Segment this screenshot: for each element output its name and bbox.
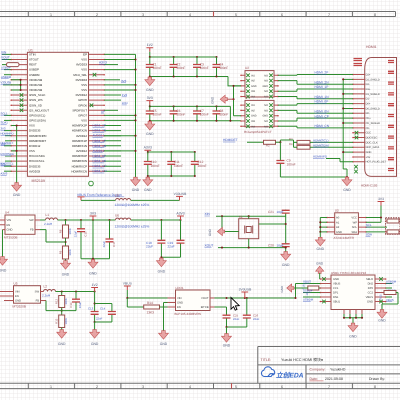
- wire VBUS right stub: [386, 297, 394, 302]
- net label HDMI_0P: [315, 100, 329, 104]
- sheet border bottom: [0, 383, 400, 388]
- svg-text:GND: GND: [282, 263, 290, 267]
- svg-text:GND: GND: [349, 334, 357, 338]
- svg-text:GND: GND: [146, 132, 154, 136]
- ground U4 caps: [88, 260, 98, 276]
- svg-text:2: 2: [96, 385, 98, 389]
- net label HDMI_0P u1row: [93, 154, 122, 158]
- no-connect X SBU1: [322, 277, 326, 303]
- svg-text:100K: 100K: [64, 318, 68, 325]
- logo LCEDA: [261, 367, 303, 380]
- capacitor C10 100nF: [144, 152, 160, 176]
- svg-text:HDMI(SDA): HDMI(SDA): [313, 143, 329, 147]
- ground row1: [145, 77, 155, 92]
- net label HDMI_1N: [315, 95, 330, 99]
- svg-text:HDMIRXHPD: HDMIRXHPD: [29, 134, 47, 138]
- svg-text:1V2: 1V2: [92, 283, 98, 287]
- wire V33USB rail: [81, 199, 180, 201]
- svg-text:LED: LED: [122, 101, 129, 105]
- wire U5 FB: [46, 301, 62, 311]
- net label HDMI_2P u1row: [93, 124, 122, 128]
- svg-text:7: 7: [328, 13, 330, 17]
- svg-text:1V2: 1V2: [122, 93, 128, 97]
- svg-text:DVDD33: DVDD33: [76, 78, 88, 82]
- svg-text:1200Ω@100MHz ±25%: 1200Ω@100MHz ±25%: [115, 225, 150, 229]
- svg-text:D2-: D2-: [366, 83, 370, 86]
- svg-text:AVDD33: AVDD33: [76, 63, 87, 67]
- HDMI1 inner pad marks: [388, 61, 394, 171]
- svg-text:C17: C17: [112, 241, 116, 247]
- svg-text:GND: GND: [62, 273, 70, 277]
- svg-text:D2_SHIELD: D2_SHIELD: [366, 78, 380, 81]
- svg-text:D0-: D0-: [366, 112, 370, 115]
- svg-text:Company:: Company:: [310, 368, 326, 372]
- resistor R8 100K: [58, 220, 72, 238]
- ground flag left ESD: [211, 95, 234, 104]
- svg-text:100nF: 100nF: [219, 113, 228, 117]
- capacitor C21 10pF: [268, 210, 290, 225]
- resistor R2: [264, 140, 276, 147]
- net label 1V2 right: [104, 93, 127, 97]
- svg-text:GND: GND: [378, 319, 386, 323]
- svg-text:HDMI_CP: HDMI_CP: [93, 164, 107, 168]
- wire row3 ground rail: [147, 175, 196, 177]
- svg-text:VD33USB: VD33USB: [29, 83, 42, 87]
- svg-text:USBDP: USBDP: [1, 66, 11, 70]
- svg-text:NO: NO: [264, 74, 268, 77]
- svg-text:USBDM: USBDM: [29, 73, 40, 77]
- svg-text:DDC_DATA: DDC_DATA: [366, 146, 380, 149]
- svg-text:V33USB: V33USB: [1, 81, 12, 85]
- svg-text:HDMI(SCL): HDMI(SCL): [313, 139, 329, 143]
- capacitor C25 22uF: [223, 313, 240, 327]
- net label 3V3 left: [1, 127, 12, 131]
- ground flag USB GND pin: [316, 262, 324, 279]
- power flag 3V0USB: [239, 287, 252, 298]
- svg-text:VSS: VSS: [81, 83, 87, 87]
- svg-text:3V3: 3V3: [121, 79, 127, 83]
- svg-text:CK-: CK-: [366, 127, 371, 130]
- svg-text:AVDD12: AVDD12: [76, 134, 87, 138]
- svg-text:HDMIRX2P: HDMIRX2P: [72, 124, 87, 128]
- svg-text:A0: A0: [336, 217, 340, 220]
- svg-text:HDMI_2P: HDMI_2P: [315, 71, 329, 75]
- svg-text:U7: U7: [245, 96, 249, 100]
- svg-text:HDMI_0N: HDMI_0N: [315, 109, 330, 113]
- net label HDMIDET left: [1, 141, 14, 145]
- net label HDMIHPD left: [1, 132, 14, 136]
- inductor L1 2.2uH: [44, 213, 58, 226]
- capacitor C18 22uF: [146, 220, 165, 257]
- svg-text:IN1: IN1: [251, 104, 256, 107]
- svg-text:GND: GND: [262, 85, 268, 88]
- svg-text:I2SIN_WS: I2SIN_WS: [29, 98, 43, 102]
- svg-text:100nF: 100nF: [219, 66, 228, 70]
- svg-text:XOUT: XOUT: [1, 56, 10, 60]
- wire crystal right pin: [259, 223, 286, 225]
- svg-text:GND: GND: [15, 300, 21, 303]
- wire U3 address pins to ground: [319, 218, 327, 238]
- svg-text:D0_SHIELD: D0_SHIELD: [366, 107, 380, 110]
- power flag VBUS stub: [78, 197, 85, 201]
- svg-text:SBU2: SBU2: [366, 278, 374, 281]
- svg-text:D1_SHIELD: D1_SHIELD: [366, 93, 380, 96]
- power flag 3V3 U3: [378, 197, 385, 222]
- svg-text:USB1 TYPEC-304-BCP16: USB1 TYPEC-304-BCP16: [331, 271, 366, 275]
- svg-text:HDMI_2N: HDMI_2N: [315, 80, 330, 84]
- svg-text:22uF: 22uF: [233, 317, 240, 321]
- capacitor C3 100nF: [193, 57, 209, 77]
- resistor R3: [289, 138, 310, 144]
- net label HDMI_0N u1row: [93, 159, 122, 163]
- ground LDO caps: [222, 326, 232, 348]
- svg-text:1: 1: [50, 13, 52, 17]
- net label XOUT: [1, 56, 11, 60]
- svg-text:7: 7: [328, 385, 330, 389]
- ruler cursor ticks red: [213, 12, 215, 17]
- svg-text:GND: GND: [58, 342, 66, 346]
- svg-text:RXC0SDA: RXC0SDA: [1, 152, 14, 156]
- svg-text:CK_SHIELD: CK_SHIELD: [366, 122, 381, 125]
- svg-text:R15: R15: [380, 294, 383, 299]
- svg-text:100nF: 100nF: [174, 164, 183, 168]
- svg-text:DDC_CLK: DDC_CLK: [366, 141, 378, 144]
- svg-text:3V0USB: 3V0USB: [239, 287, 252, 291]
- svg-text:HDMIRXDET: HDMIRXDET: [29, 139, 46, 143]
- svg-text:100K: 100K: [64, 298, 68, 305]
- svg-text:USBDP: USBDP: [29, 68, 39, 72]
- svg-text:A3V3: A3V3: [99, 61, 107, 65]
- svg-text:L1: L1: [46, 213, 50, 217]
- svg-text:3V3: 3V3: [1, 162, 6, 166]
- wire VBUS to LDO VIN: [126, 297, 167, 299]
- net label A3V3 bottom left: [1, 171, 12, 175]
- svg-text:1: 1: [50, 385, 52, 389]
- net label HDMI_0N: [315, 109, 330, 113]
- svg-text:GND: GND: [262, 115, 268, 118]
- svg-text:3: 3: [142, 13, 144, 17]
- ground flag CC1: [280, 284, 294, 293]
- svg-text:C16: C16: [69, 302, 73, 308]
- svg-text:IN2: IN2: [251, 109, 256, 112]
- ground HDMI shield: [342, 177, 352, 192]
- svg-text:USBDP: USBDP: [303, 289, 313, 293]
- svg-text:GPIO5: GPIO5: [78, 98, 87, 102]
- svg-text:DN2: DN2: [368, 283, 374, 286]
- net label USBDP left: [303, 289, 320, 293]
- IC U4 MT3520B: [0, 211, 40, 240]
- svg-text:VIN: VIN: [15, 291, 20, 294]
- svg-text:GND: GND: [89, 272, 97, 276]
- HDMI1 pin names: [366, 73, 387, 163]
- svg-text:100nF: 100nF: [153, 113, 162, 117]
- svg-text:10pF: 10pF: [277, 210, 284, 214]
- svg-text:A2: A2: [336, 226, 340, 229]
- svg-text:GND: GND: [251, 115, 257, 118]
- svg-text:XIN: XIN: [205, 212, 211, 216]
- svg-text:A3V3: A3V3: [144, 146, 152, 150]
- wire U3 SDA with label: [366, 232, 387, 237]
- svg-text:VOUT: VOUT: [201, 297, 209, 300]
- svg-text:GND: GND: [144, 188, 152, 192]
- svg-text:GPIO7: GPIO7: [78, 114, 87, 118]
- svg-text:1V2: 1V2: [147, 43, 153, 47]
- svg-text:3V3: 3V3: [378, 197, 384, 201]
- svg-text:AVDD33: AVDD33: [29, 169, 40, 173]
- capacitor C6 100nF: [170, 106, 186, 120]
- svg-text:C14: C14: [100, 307, 106, 311]
- svg-text:IN4: IN4: [251, 96, 256, 99]
- svg-text:VSS: VSS: [29, 124, 35, 128]
- svg-text:HDMIHPD: HDMIHPD: [1, 132, 14, 136]
- wire LDO BP: [215, 307, 227, 314]
- svg-text:HDMI_1N: HDMI_1N: [315, 95, 330, 99]
- net label USBDM left: [303, 297, 320, 302]
- svg-text:VSS: VSS: [81, 58, 87, 62]
- svg-text:U2: U2: [245, 66, 249, 70]
- svg-text:NO: NO: [264, 96, 268, 99]
- svg-text:CC1: CC1: [333, 287, 339, 290]
- svg-text:VIN: VIN: [177, 297, 182, 300]
- IC U1 MS2109: [10, 48, 105, 183]
- border index numbers: [50, 13, 376, 389]
- svg-text:SCL: SCL: [352, 226, 358, 229]
- ground crystal caps: [281, 252, 291, 267]
- net label HDMIHPD: [313, 155, 353, 162]
- svg-text:HDMI_0P: HDMI_0P: [93, 154, 106, 158]
- svg-text:HDMIRX1N: HDMIRX1N: [72, 144, 87, 148]
- net label USBDP: [1, 66, 11, 70]
- svg-text:C21: C21: [268, 210, 274, 214]
- company row: [310, 368, 346, 372]
- capacitor C9 100nF: [276, 142, 295, 177]
- svg-text:HDMI_CN: HDMI_CN: [315, 124, 330, 128]
- wire VD33USB bus: [1, 79, 22, 91]
- svg-text:8: 8: [374, 13, 376, 17]
- svg-text:U4: U4: [5, 211, 9, 215]
- svg-text:GPIO0(SCL): GPIO0(SCL): [29, 114, 45, 118]
- svg-text:D2+: D2+: [366, 73, 371, 76]
- mouse cursor: [231, 298, 239, 311]
- svg-text:2.2uH: 2.2uH: [44, 222, 52, 226]
- svg-text:22uF: 22uF: [146, 245, 153, 249]
- svg-text:CC2: CC2: [368, 292, 374, 295]
- wire A3V3 cap rail: [147, 151, 196, 153]
- svg-text:U5: U5: [14, 282, 18, 286]
- svg-text:MCU_SEL: MCU_SEL: [73, 73, 87, 77]
- svg-text:3: 3: [142, 385, 144, 389]
- svg-text:HDMI_0P: HDMI_0P: [315, 100, 329, 104]
- svg-text:GND: GND: [251, 85, 257, 88]
- svg-text:VSS: VSS: [81, 88, 87, 92]
- svg-text:EN: EN: [177, 306, 181, 309]
- ESD array U7 RClamp0524P: [240, 96, 279, 128]
- crystal X1: [239, 215, 259, 239]
- svg-text:VBUS: VBUS: [123, 282, 133, 286]
- svg-text:R14: R14: [147, 301, 153, 305]
- svg-text:HDMI_0N: HDMI_0N: [93, 159, 107, 163]
- title block frame: [258, 347, 400, 384]
- svg-text:IN2: IN2: [251, 80, 256, 83]
- svg-text:22uF: 22uF: [96, 317, 103, 321]
- ground R9: [61, 261, 71, 277]
- ground U3: [315, 237, 325, 251]
- connector HDMI1 body: [361, 45, 397, 188]
- svg-text:HDMI_CN: HDMI_CN: [93, 169, 107, 173]
- resistor R13 100K: [55, 308, 69, 331]
- svg-text:VBUS: VBUS: [366, 296, 374, 299]
- svg-text:1V2: 1V2: [1, 142, 6, 146]
- no-connect X CEC NC: [355, 131, 359, 139]
- svg-text:HDMIRXCP: HDMIRXCP: [72, 164, 87, 168]
- power flag 1V2 rail: [91, 283, 98, 292]
- svg-text:WP: WP: [353, 221, 358, 224]
- svg-text:HDMI_CP: HDMI_CP: [315, 114, 329, 118]
- no-connect X SBU2: [379, 277, 383, 303]
- svg-text:U6: U6: [115, 213, 119, 217]
- svg-text:IN1: IN1: [251, 74, 256, 77]
- svg-text:SW: SW: [29, 219, 34, 222]
- net label XIN: [205, 212, 286, 217]
- svg-text:GND: GND: [316, 262, 324, 266]
- svg-text:4: 4: [189, 13, 191, 17]
- svg-text:I2SIN_SCLK: I2SIN_SCLK: [29, 93, 45, 97]
- net label HDMI_1N u1row: [93, 144, 122, 148]
- wire 1V2 rail: [149, 56, 218, 58]
- inductor L2 2.2uH: [42, 284, 56, 297]
- svg-text:100nF: 100nF: [153, 66, 162, 70]
- svg-text:IN3: IN3: [251, 120, 256, 123]
- svg-text:GPIO1(SDA): GPIO1(SDA): [29, 119, 46, 123]
- wire row2 ground rail: [149, 106, 241, 121]
- svg-text:DDC/CEC: DDC/CEC: [366, 136, 378, 139]
- resistor R7 pullup: [385, 221, 399, 234]
- net label 3V3 bottom left: [1, 162, 12, 166]
- svg-text:DVDD33: DVDD33: [29, 129, 41, 133]
- svg-text:NO: NO: [264, 90, 268, 93]
- power flag VBUS: [123, 282, 133, 298]
- wire U4 output ground rail: [81, 220, 110, 260]
- wire HDMI shield bus: [342, 78, 353, 177]
- svg-text:I2S_MCLKOUT: I2S_MCLKOUT: [29, 108, 49, 112]
- capacitor C16 22uF: [62, 292, 82, 311]
- capacitor C8 100nF: [213, 106, 229, 120]
- capacitor C19 22uF: [168, 220, 185, 257]
- svg-text:22uF: 22uF: [74, 231, 78, 238]
- svg-text:A3V3: A3V3: [1, 172, 8, 176]
- svg-text:HDMI-C105: HDMI-C105: [361, 183, 378, 187]
- svg-text:6: 6: [281, 13, 283, 17]
- svg-text:5: 5: [235, 385, 237, 389]
- sheet border top: [0, 12, 396, 17]
- no-connect X GPIO6: [90, 103, 94, 107]
- svg-text:V33USB: V33USB: [174, 192, 187, 196]
- svg-text:HDMIDET: HDMIDET: [223, 138, 238, 142]
- svg-text:立创EDA: 立创EDA: [276, 372, 304, 380]
- svg-text:AVDD12: AVDD12: [93, 149, 105, 153]
- wire DDC SCL: [310, 139, 353, 143]
- svg-text:100nF: 100nF: [200, 113, 209, 117]
- capacitor C17 22uF: [102, 220, 116, 259]
- svg-text:VSS: VSS: [29, 149, 35, 153]
- svg-text:VCC: VCC: [351, 217, 357, 220]
- svg-text:A1: A1: [336, 221, 340, 224]
- svg-text:GND: GND: [0, 269, 7, 273]
- net label USBDM right: [386, 280, 397, 284]
- svg-text:3V3: 3V3: [147, 96, 153, 100]
- svg-text:SCL: SCL: [366, 223, 372, 227]
- ground U4 GND pin: [0, 230, 8, 273]
- svg-text:GPIO6: GPIO6: [78, 103, 87, 107]
- net label RXC0CSCL: [1, 161, 14, 165]
- svg-text:HDMI_2P: HDMI_2P: [93, 124, 106, 128]
- svg-text:3V3: 3V3: [90, 211, 96, 215]
- resistor R15 5.1K: [380, 291, 399, 311]
- resistor R6 pullup: [386, 218, 400, 234]
- svg-text:100nF: 100nF: [151, 164, 160, 168]
- net label VBUS From Reference Design: [77, 193, 124, 197]
- wire U1 right ground bus: [104, 54, 136, 177]
- svg-text:A3V3: A3V3: [176, 211, 184, 215]
- resistor R4: [289, 143, 310, 149]
- svg-text:SW: SW: [35, 291, 40, 294]
- USB1 shield pins: [344, 310, 362, 315]
- svg-text:HDMIRXCN: HDMIRXCN: [71, 169, 87, 173]
- svg-text:10pF: 10pF: [277, 243, 284, 247]
- title text: [261, 357, 324, 362]
- IC USB1 TYPEC-304-BCP16: [320, 271, 387, 310]
- svg-text:D1+: D1+: [366, 88, 371, 91]
- svg-text:CEC: CEC: [366, 132, 372, 135]
- resistor R14 13K3: [127, 298, 167, 315]
- svg-text:GND: GND: [366, 151, 372, 154]
- svg-text:HDMIRX1P: HDMIRX1P: [72, 139, 87, 143]
- svg-text:XTOUT: XTOUT: [29, 58, 39, 62]
- wire R3R4 left join: [280, 140, 297, 147]
- wire U4 FB: [40, 230, 66, 242]
- svg-text:6: 6: [281, 385, 283, 389]
- resistor R16 5.1K: [294, 284, 321, 298]
- svg-text:GND: GND: [158, 270, 166, 274]
- svg-text:GND: GND: [336, 231, 342, 234]
- svg-text:AVDD12: AVDD12: [93, 134, 105, 138]
- wire ESD outputs to HDMI pins: [278, 75, 353, 128]
- svg-text:22uF: 22uF: [253, 317, 260, 321]
- ESD array U2 RClamp0524P: [240, 66, 279, 98]
- svg-text:HDMIRX2N: HDMIRX2N: [72, 129, 87, 133]
- svg-text:C15: C15: [84, 231, 88, 237]
- net label HDMI_1P u1row: [93, 139, 122, 143]
- svg-text:GND: GND: [317, 247, 325, 251]
- HDMI1 pins: [352, 74, 364, 163]
- svg-text:C20: C20: [268, 243, 274, 247]
- svg-text:EN: EN: [7, 224, 11, 227]
- net label AVDD12 u1row: [93, 134, 122, 138]
- wire 1V2 rail: [56, 290, 96, 292]
- svg-text:GND: GND: [367, 301, 373, 304]
- svg-text:HDMIHPD: HDMIHPD: [313, 155, 328, 159]
- svg-text:VSS: VSS: [81, 119, 87, 123]
- svg-text:RXC0CSDA: RXC0CSDA: [29, 154, 45, 158]
- svg-text:GND: GND: [132, 188, 140, 192]
- net label USBDM: [1, 75, 12, 79]
- svg-text:VBUS: VBUS: [333, 283, 341, 286]
- no-connect X HDMI mount: [354, 165, 358, 173]
- ground row3: [143, 177, 153, 192]
- svg-text:4: 4: [189, 385, 191, 389]
- svg-text:22uF: 22uF: [168, 245, 175, 249]
- wire crystal bottom pin: [248, 239, 250, 248]
